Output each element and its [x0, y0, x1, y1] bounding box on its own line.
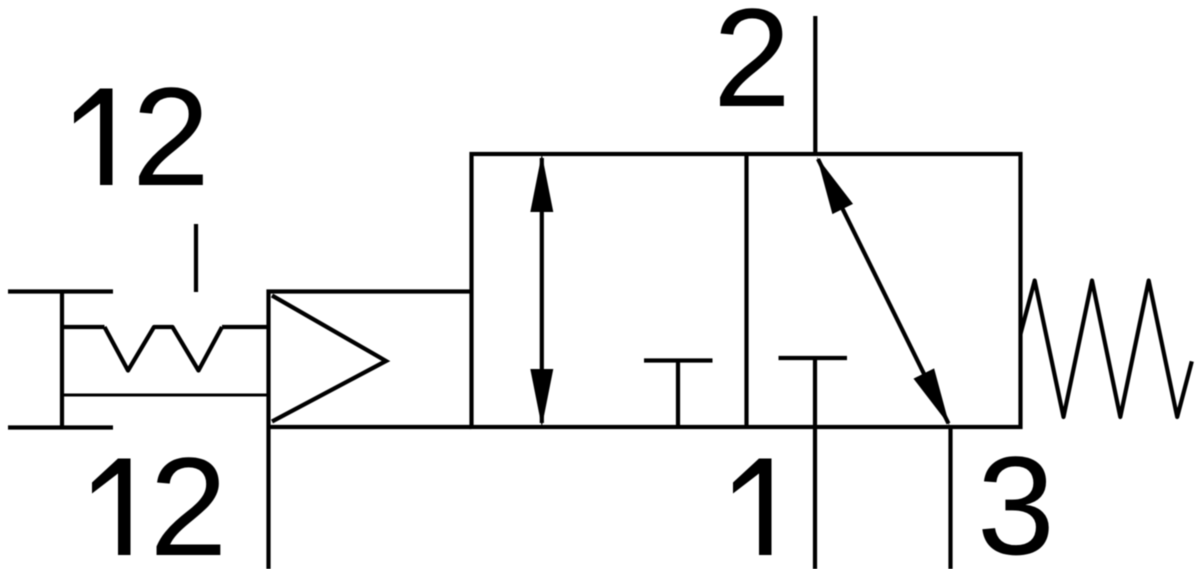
- label 1: [733, 459, 772, 556]
- svg-text:3: 3: [977, 427, 1055, 569]
- return spring (right): [1021, 281, 1192, 418]
- svg-text:2: 2: [132, 58, 210, 215]
- pilot cap top line: [8, 289, 113, 293]
- valve body bottom extension under amplifier box: [269, 425, 472, 429]
- pilot cap vertical bar: [60, 292, 64, 428]
- label 12 (pilot port, top): [74, 58, 210, 215]
- pilot drain line (down from amplifier box): [266, 427, 270, 569]
- pilot channel upper line (left segment): [62, 325, 105, 329]
- pilot amplifier triangle: [272, 296, 386, 422]
- valve body divider: [744, 154, 748, 427]
- flow arrow (left position, double-headed vertical): [530, 154, 553, 427]
- blocked port T (left position): [644, 361, 713, 428]
- port 3 line: [948, 427, 952, 569]
- pilot amplifier box: [269, 292, 472, 428]
- blocked port T (port 1, right position): [779, 356, 848, 360]
- pilot port dash: [194, 224, 198, 292]
- pilot cap bottom line: [8, 425, 113, 429]
- pilot channel lower line: [62, 394, 269, 397]
- port 2 line: [813, 16, 817, 154]
- label 12 (bottom): [92, 428, 227, 569]
- svg-text:2: 2: [713, 0, 791, 136]
- pilot spring zigzag: [105, 327, 223, 371]
- valve body outline: [472, 154, 1021, 427]
- port 1 line: [813, 358, 817, 569]
- svg-text:2: 2: [150, 428, 228, 569]
- pilot channel upper line (right segment): [222, 325, 269, 329]
- flow path arrow 2-3 (diagonal, double-headed): [817, 157, 950, 426]
